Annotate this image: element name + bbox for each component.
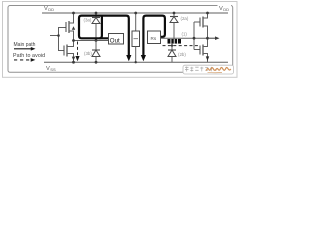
- VSS label: [46, 66, 56, 72]
- node D2a cathode on VDD: [173, 12, 176, 15]
- dashed path to avoid vertical (through left NMOS): [77, 42, 79, 57]
- transistor NMOS bottom right (receiver): [194, 38, 209, 62]
- gate line vertical right: [193, 22, 195, 50]
- node D3a anode on out wire: [95, 39, 98, 42]
- diode D2b (VSS to pad): [168, 44, 176, 63]
- wire output arrow: [209, 36, 220, 40]
- diode D3a (Out to VDD): [92, 13, 100, 41]
- box Out: [109, 34, 124, 45]
- svg-text:DD: DD: [48, 7, 54, 12]
- svg-text:Rs: Rs: [151, 36, 157, 41]
- svg-text:Main path: Main path: [14, 42, 36, 48]
- dashed path to avoid horizontal (toward gates): [163, 45, 200, 47]
- node D3a cathode on VDD: [95, 12, 98, 15]
- VDD rail: [42, 12, 228, 14]
- main path arrow into VSS (left of clamp): [126, 55, 131, 61]
- watermark box: [183, 65, 234, 74]
- gate input wire (pre-driver stub): [59, 28, 67, 51]
- node D3b anode on VSS: [95, 61, 98, 64]
- svg-text:(2a): (2a): [181, 16, 189, 21]
- node receiver output: [206, 37, 209, 40]
- node NMOS source on VSS: [72, 61, 75, 64]
- VDD label right: [218, 3, 232, 12]
- node out wire / drivers: [72, 39, 75, 42]
- wire Out node: [74, 40, 109, 42]
- svg-text:(3b): (3b): [84, 51, 92, 56]
- node dashed crossing on D2b lead: [171, 44, 173, 46]
- VDD label left: [44, 6, 54, 12]
- svg-text:Path to avoid: Path to avoid: [13, 53, 45, 59]
- svg-text:SS: SS: [50, 67, 56, 72]
- node clamp top on VDD: [134, 12, 137, 15]
- VSS rail: [44, 61, 228, 63]
- main path thick loop around D3a: [79, 16, 129, 56]
- node gate bus junction: [57, 34, 60, 37]
- svg-text:(2b): (2b): [178, 52, 186, 57]
- main path thick run from pad to clamp: [143, 16, 165, 56]
- svg-text:DD: DD: [223, 7, 229, 12]
- resistor R clamp: [132, 13, 140, 62]
- svg-text:(3a): (3a): [84, 18, 92, 23]
- diode D3b (VSS to Out): [92, 41, 100, 63]
- transistor PMOS left (output driver pull-up): [66, 13, 75, 41]
- transistor NMOS left (output driver pull-down): [64, 41, 75, 63]
- legend solid arrow: [14, 47, 36, 51]
- node gate line on pad wire: [193, 37, 196, 40]
- svg-text:Out: Out: [110, 38, 120, 45]
- node top NMOS drain on VDD: [206, 12, 209, 15]
- svg-text:(1): (1): [182, 32, 188, 37]
- node PMOS drain on VDD: [72, 12, 75, 15]
- pad (1) hatched: [168, 39, 182, 44]
- box Rs: [148, 31, 161, 44]
- wire pad line: [161, 37, 209, 39]
- main path loop right leg: [99, 16, 102, 39]
- main path arrow into VSS (right of clamp): [141, 55, 146, 61]
- node clamp bottom on VSS: [135, 61, 137, 63]
- legend dashed arrow: [14, 58, 35, 62]
- diode D2a (pad to VDD): [170, 13, 178, 39]
- transistor NMOS top right (receiver): [194, 13, 208, 38]
